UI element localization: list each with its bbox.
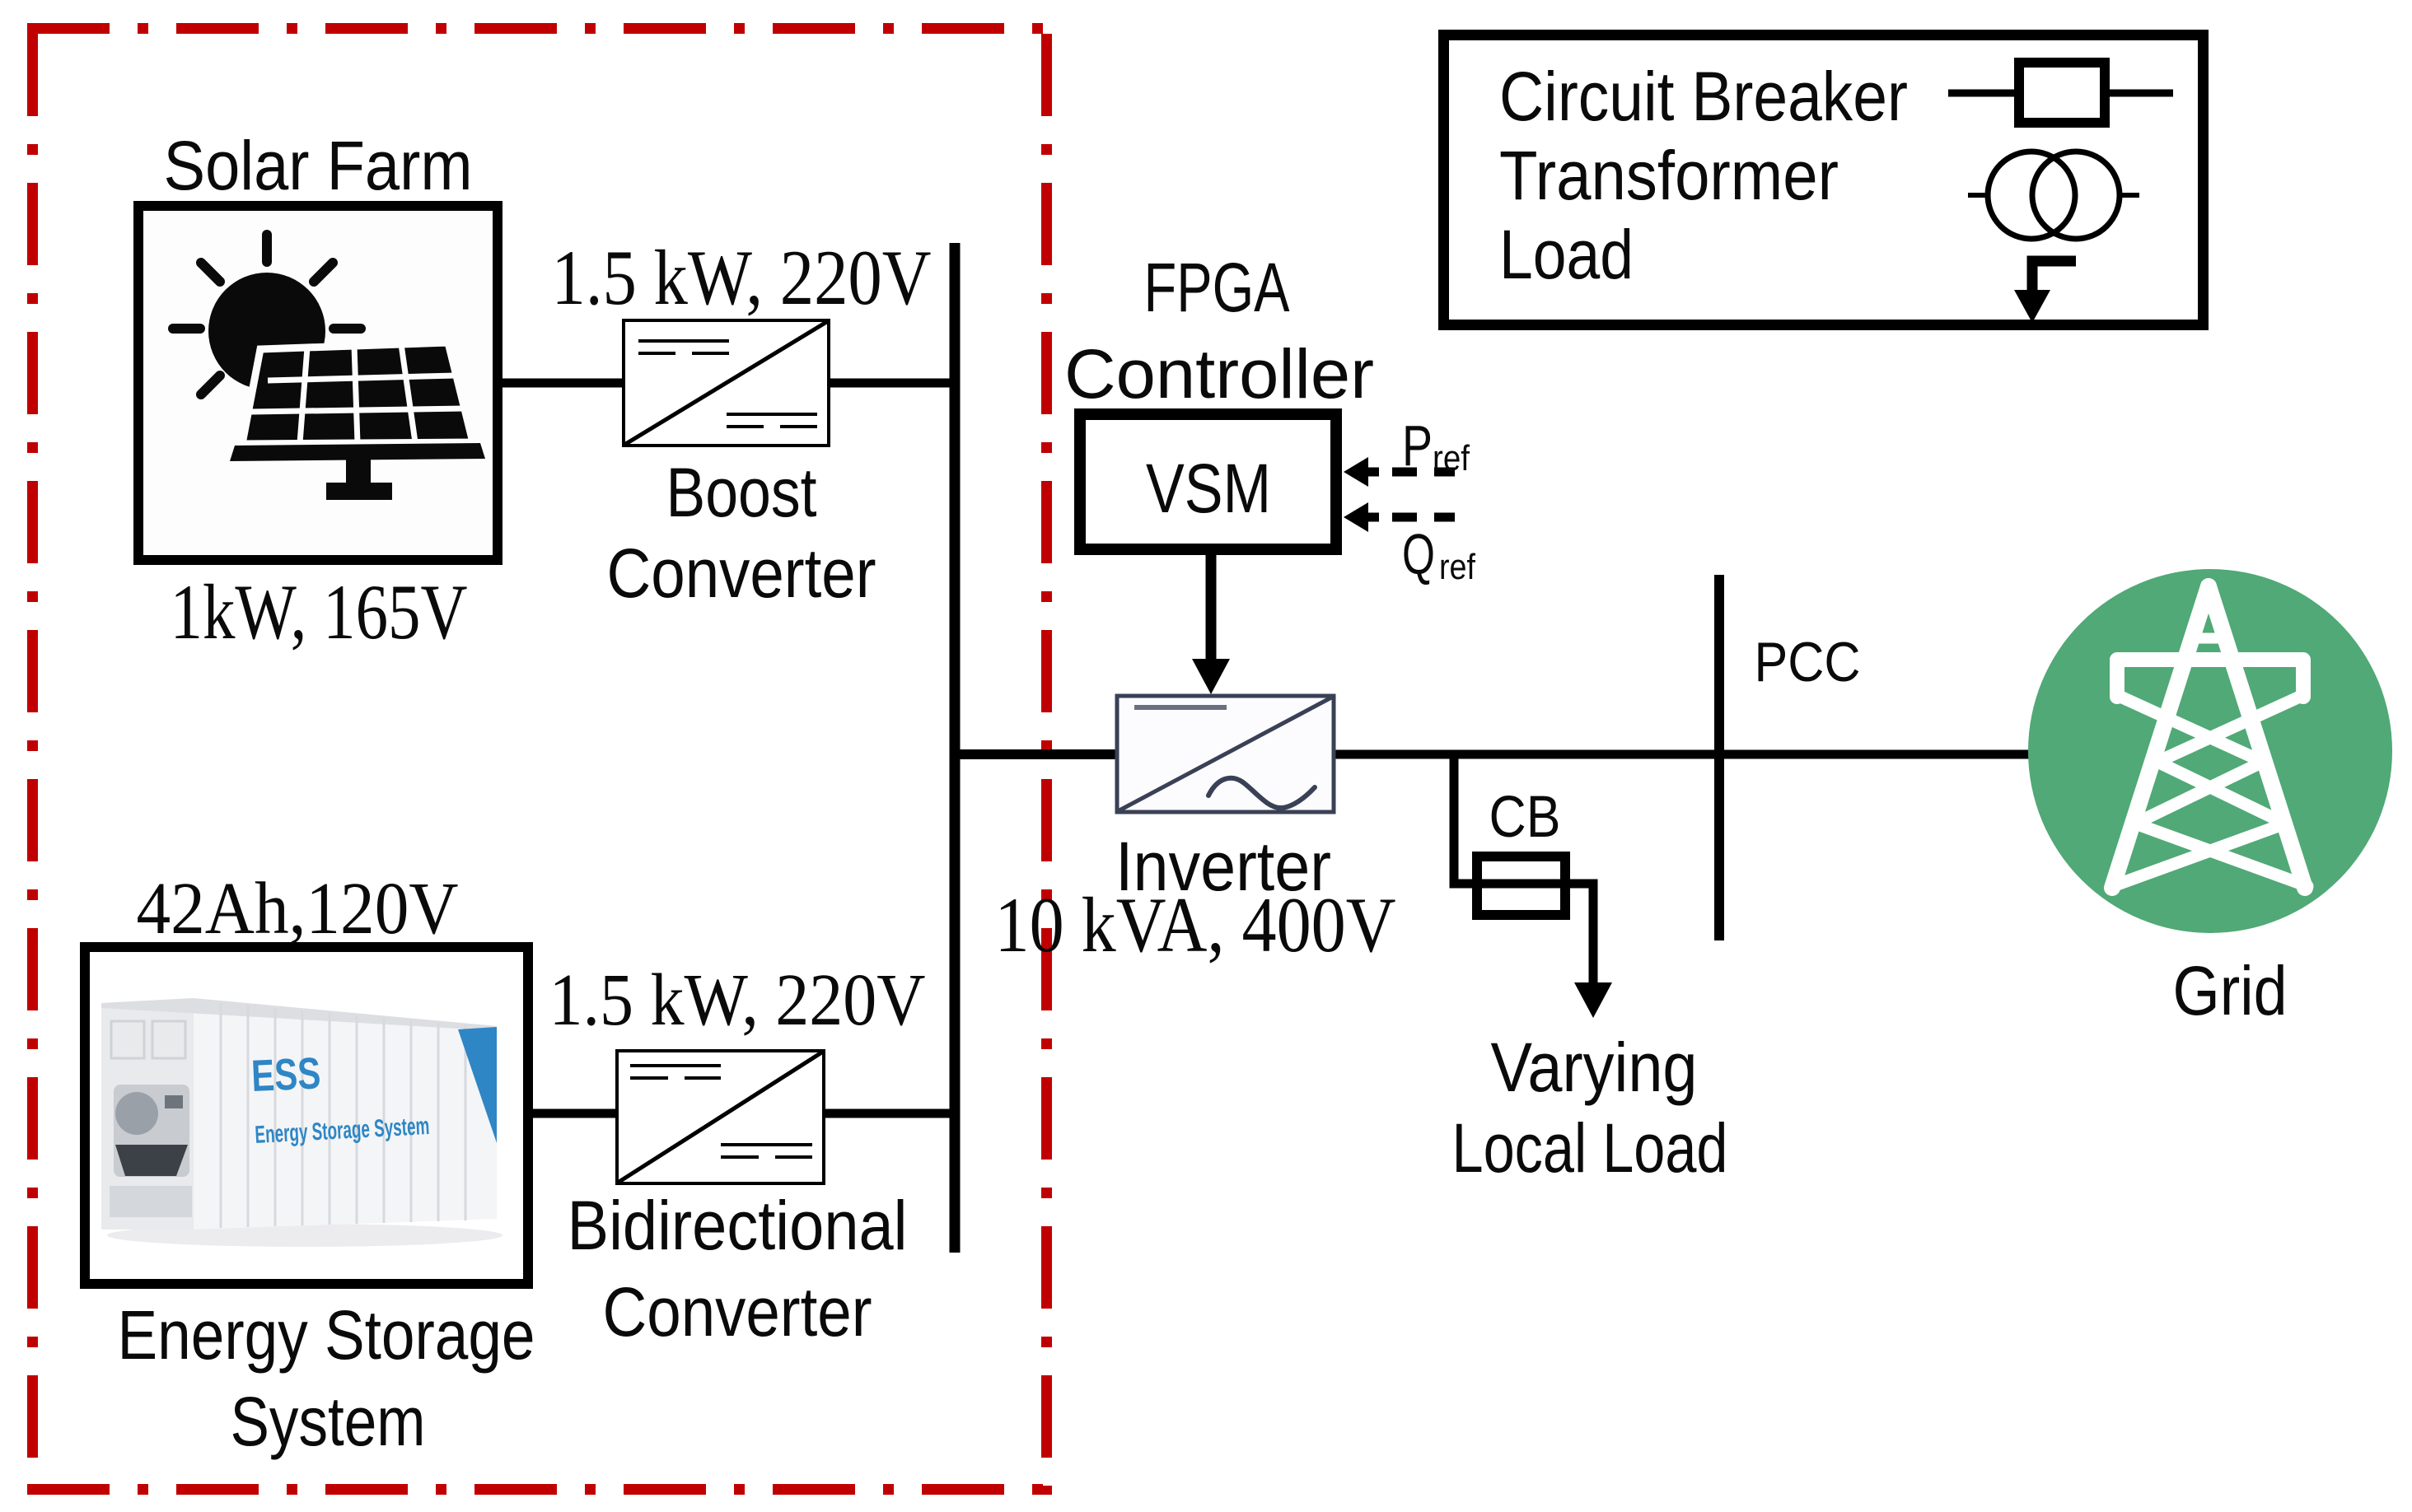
svg-text:System: System bbox=[231, 1383, 426, 1460]
legend box bbox=[1444, 35, 2204, 325]
wire solar to boost bbox=[499, 379, 626, 388]
svg-text:Converter: Converter bbox=[607, 534, 876, 612]
svg-text:10 kVA, 400V: 10 kVA, 400V bbox=[995, 881, 1396, 968]
solar icon: panel bbox=[230, 343, 485, 500]
boost converter symbol bbox=[624, 320, 829, 446]
svg-text:Bidirectional: Bidirectional bbox=[568, 1187, 908, 1264]
Qref dashed arrow into VSM bbox=[1344, 502, 1476, 587]
svg-text:Grid: Grid bbox=[2173, 952, 2288, 1029]
svg-text:1.5 kW, 220V: 1.5 kW, 220V bbox=[552, 234, 932, 321]
svg-text:VSM: VSM bbox=[1146, 450, 1271, 527]
svg-text:ESS: ESS bbox=[250, 1048, 322, 1101]
svg-text:CB: CB bbox=[1489, 785, 1561, 850]
bidirectional converter symbol bbox=[617, 1051, 824, 1183]
svg-text:Transformer: Transformer bbox=[1499, 137, 1839, 214]
grid icon bbox=[2028, 569, 2392, 933]
wire inverter to grid bbox=[1332, 750, 2031, 759]
svg-text:Local Load: Local Load bbox=[1452, 1109, 1728, 1187]
legend circuit breaker symbol bbox=[1948, 90, 2014, 97]
DC bus bar bbox=[950, 243, 961, 1253]
circuit breaker CB bbox=[1477, 856, 1565, 915]
solar icon: sun bbox=[173, 235, 361, 422]
wire DC bus to inverter bbox=[950, 749, 1119, 759]
Pref dashed arrow into VSM bbox=[1344, 413, 1470, 487]
svg-text:PCC: PCC bbox=[1755, 631, 1861, 693]
svg-text:Q: Q bbox=[1402, 522, 1435, 586]
VSM box bbox=[1080, 414, 1336, 549]
svg-text:Solar Farm: Solar Farm bbox=[164, 127, 473, 204]
svg-text:Varying: Varying bbox=[1491, 1029, 1698, 1106]
microgrid boundary (red dash-dot border) bbox=[27, 29, 1052, 1496]
svg-text:Boost: Boost bbox=[666, 454, 817, 531]
svg-text:Energy Storage: Energy Storage bbox=[118, 1296, 535, 1374]
Energy Storage System box bbox=[85, 947, 528, 1284]
svg-text:Converter: Converter bbox=[603, 1273, 872, 1351]
svg-text:42Ah,120V: 42Ah,120V bbox=[137, 868, 459, 950]
legend load symbol bbox=[2032, 261, 2076, 292]
svg-text:ref: ref bbox=[1433, 438, 1470, 478]
Solar Farm box bbox=[138, 206, 498, 560]
wire boost to DC bus bbox=[827, 379, 956, 388]
wire ESS to bidirectional converter bbox=[530, 1109, 619, 1118]
arrow VSM to inverter bbox=[1206, 549, 1217, 661]
wire bidirectional converter to DC bus bbox=[822, 1109, 956, 1118]
svg-text:Circuit Breaker: Circuit Breaker bbox=[1499, 58, 1908, 135]
ESS container picture bbox=[101, 998, 502, 1247]
wire drop from AC line to CB bbox=[1454, 750, 1593, 985]
svg-text:Controller: Controller bbox=[1064, 335, 1374, 413]
svg-text:Load: Load bbox=[1499, 216, 1634, 293]
svg-text:1.5 kW, 220V: 1.5 kW, 220V bbox=[549, 959, 926, 1041]
legend transformer symbol bbox=[1968, 193, 1988, 198]
svg-text:FPGA: FPGA bbox=[1144, 249, 1290, 326]
svg-text:P: P bbox=[1402, 413, 1433, 478]
svg-text:1kW, 165V: 1kW, 165V bbox=[171, 568, 468, 656]
inverter symbol bbox=[1117, 696, 1334, 812]
PCC bus bar bbox=[1714, 575, 1724, 940]
arrow to local load bbox=[1574, 982, 1612, 1018]
svg-text:ref: ref bbox=[1439, 547, 1476, 587]
